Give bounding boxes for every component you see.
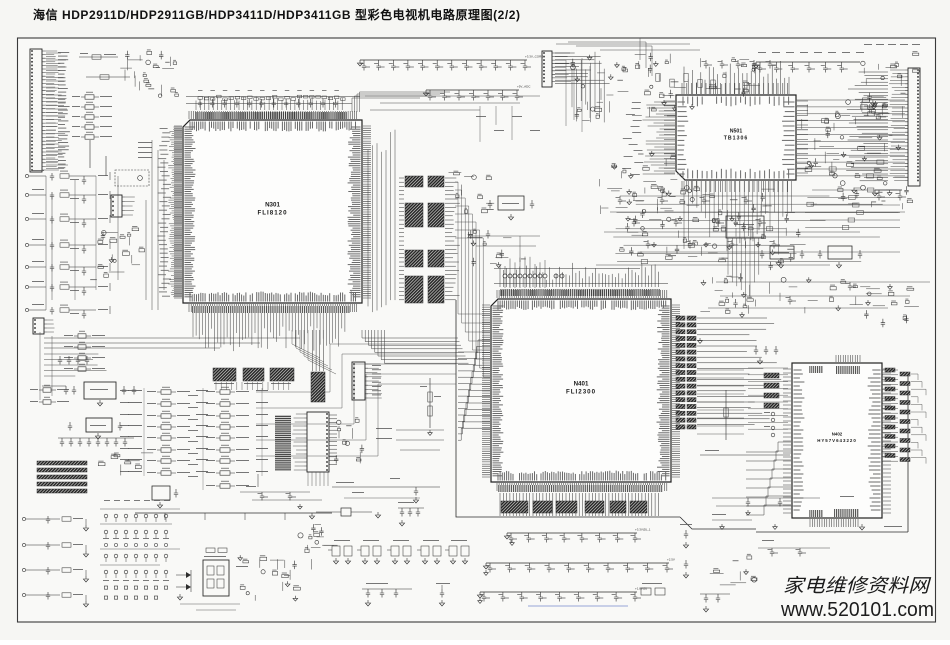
- resistor block column right of N401: [676, 316, 696, 429]
- decoupling caps row C560s top-right: [753, 62, 860, 73]
- delay line N502 box: [726, 216, 764, 238]
- bundle right edge of N301 top going right: [352, 98, 420, 112]
- cap row 2 drops: [476, 106, 540, 142]
- net labels right of XP101: [58, 52, 70, 168]
- AV input filter rows CA301..CA307 (Y/C inputs): [25, 171, 110, 319]
- supply rails above N301: [186, 97, 360, 104]
- cluster below N501 extra caps: [616, 196, 781, 249]
- connector XP501B (right edge): [889, 68, 920, 186]
- AV rows extra ink: [32, 170, 96, 314]
- wires below N401 into loop: [500, 493, 658, 516]
- N402 data bus horizontals: [697, 370, 744, 434]
- labels under RP301-RP303: [214, 383, 291, 384]
- +2.5V decoupling row: [483, 558, 675, 573]
- wires from right connector to N501 area: [846, 72, 888, 181]
- parts between opto and L-C pairs: [240, 486, 322, 509]
- diodes V103/V104 left of opto: [176, 570, 191, 600]
- pin header row (test points) above N401: [503, 274, 564, 278]
- discrete parts left of N501: [599, 151, 677, 218]
- svg-text:TB1306: TB1306: [724, 136, 748, 142]
- bus lines into N402 left pins: [748, 368, 788, 429]
- connector XP102 (small, below XP101): [33, 318, 55, 334]
- svg-text:N301: N301: [265, 202, 280, 209]
- mid-right discrete rows: [613, 196, 898, 270]
- L-C supply pair +3.3V_PADC: [417, 540, 441, 564]
- stub wires joining RP packs: [399, 178, 404, 300]
- keypad ADC resistor rows R9xx: [72, 92, 112, 139]
- LED indicator row with resistor R901: [79, 53, 118, 59]
- long rail wires from left connector: [44, 338, 300, 348]
- Flash_Power caps group: [398, 502, 424, 526]
- corner parts near right connector top: [862, 93, 906, 116]
- XP501 fan drop verticals: [566, 58, 590, 132]
- connector XP401 (panel output): [352, 362, 382, 400]
- svg-text:N401: N401: [574, 381, 589, 388]
- caps row below N102: [58, 438, 134, 447]
- resistor blocks left of N402: [764, 373, 779, 408]
- IC N301 FLI8120 (video processor): [174, 111, 371, 312]
- +3.3V(D)_1 decoupling row: [504, 528, 650, 543]
- cluster right of opto boost: [298, 524, 338, 569]
- caps near RN101: [98, 453, 153, 476]
- RP to ladder drops: [216, 382, 289, 390]
- bias resistor network R331 area: [90, 226, 144, 280]
- L-C supply pair +1.8V_PLL: [445, 540, 469, 564]
- voltage regulator N801 with caps: [760, 246, 804, 268]
- test point grid rows 3-4: [104, 554, 168, 578]
- flash D301 right pins: [329, 415, 337, 464]
- opto area labels: [180, 556, 248, 610]
- horizontal service bus: [135, 513, 332, 520]
- svg-text:家电维修资料网: 家电维修资料网: [783, 575, 932, 597]
- +3.3V_CORE decoupling row C501-C512: [357, 55, 543, 71]
- vertical drops from N501 bottom pins: [684, 181, 792, 255]
- resistor packs RP317/RP318: [405, 276, 444, 303]
- below N402 extra: [712, 514, 830, 557]
- ladder feed verticals: [144, 388, 262, 490]
- bottom-right caps pair C8xx: [700, 594, 730, 612]
- labels right of XP401: [372, 365, 381, 395]
- resistors above opto: [206, 548, 227, 552]
- svg-text:www.520101.com: www.520101.com: [780, 599, 934, 621]
- connector XP101 (main board input, left edge): [30, 49, 59, 172]
- SDRAM clock trace with label: [700, 450, 790, 455]
- left mid zigzag wires: [44, 354, 107, 376]
- top-centre vertical wires cluster: [572, 52, 604, 123]
- resistor stacks above N301: [198, 90, 345, 101]
- SOFTWLED trace: [332, 482, 440, 503]
- labels far left of N301 pins: [157, 128, 171, 297]
- svg-text:FLI8120: FLI8120: [257, 210, 287, 217]
- transistor parts right of opto: [238, 555, 300, 601]
- inductor L401 and cap C401: [449, 171, 495, 214]
- discrete row below regulators: [700, 273, 817, 313]
- cluster right of N501 (filters, H/V out): [802, 100, 908, 186]
- IC N501 TB1306 (jungle IC): [664, 83, 808, 192]
- vertical centre bundle from delay area: [728, 238, 759, 306]
- top row boost right of XP501: [556, 44, 776, 69]
- horizontal rails below N501: [596, 212, 905, 265]
- resistor column top-centre: [656, 73, 715, 109]
- regulator N803 above N401: [488, 196, 534, 220]
- svg-text:+2.5V: +2.5V: [667, 558, 675, 562]
- bus wires leaving N301 bottom: [193, 313, 345, 351]
- N402 control pin bundle to left: [746, 442, 791, 452]
- svg-text:N402: N402: [832, 432, 843, 437]
- crystal area extra wires: [470, 236, 540, 262]
- VOL_OUT caps group C368-C370: [362, 583, 412, 606]
- centre vertical bundle into header row: [505, 257, 545, 274]
- audio input rows bottom-left: [22, 516, 88, 607]
- blue revision underline: [528, 605, 628, 607]
- wires near VGA labels: [376, 428, 444, 450]
- PWM_OUT line with resistors: [86, 75, 130, 79]
- vertical resistor R413 centre: [420, 378, 441, 435]
- ladder area left labels: [120, 390, 129, 472]
- left rows 330-400 boost: [40, 332, 89, 400]
- L-C supply pair +1.8V_DADC: [357, 540, 381, 564]
- opto coupler N103: [203, 560, 229, 596]
- resistor pack RP301: [213, 368, 236, 381]
- resistor pack RP302: [243, 368, 264, 381]
- bundle from N301 bottom to RC ladder: [362, 330, 458, 338]
- transistor bias cluster V501-V504: [571, 53, 686, 121]
- connector XP501 top-centre: [542, 51, 571, 87]
- grid area more circles: [103, 538, 169, 581]
- pin label band below N301: [192, 306, 350, 313]
- pin strip N402 top: [809, 355, 860, 374]
- L318 Flash_Power row: [206, 474, 258, 488]
- svg-text:N501: N501: [730, 129, 743, 135]
- horizontal stubs left of N301: [168, 127, 182, 297]
- IC N402 HY57V643220 (SDRAM): [783, 363, 891, 518]
- svg-text:海信 HDP2911D/HDP2911GB/HDP3411D: 海信 HDP2911D/HDP2911GB/HDP3411D/HDP3411GB…: [33, 7, 520, 22]
- pin label band above N401: [500, 289, 660, 296]
- caps above N402: [754, 346, 778, 364]
- single caps column far right-bottom: [680, 524, 692, 578]
- wires right of N402 to frame: [911, 374, 918, 380]
- decoupling parts row above N301: [198, 99, 338, 108]
- resistor packs RP311/RP312: [405, 176, 444, 187]
- transistor cluster V901/V902 top-left: [120, 49, 178, 97]
- stepped bundle left of N401 from ladder: [256, 344, 456, 392]
- pad squares row 5: [104, 586, 167, 599]
- N401 left pin bundle going left: [458, 340, 490, 352]
- flash memory D301: [292, 412, 329, 472]
- resistor pack RP304 vertical: [311, 372, 325, 402]
- +5V_ADC decoupling row C520-C526: [423, 85, 531, 101]
- termination blocks right of N402 (outer col): [900, 372, 910, 462]
- resistor pack RP303: [270, 368, 294, 381]
- top wires into N501: [560, 38, 640, 60]
- test point grid rows 1-2: [104, 514, 168, 538]
- wire fan labels column right of XP101: [46, 53, 68, 169]
- signal bundle N301 to N401 (stepped): [455, 182, 490, 314]
- supply filter ladder col 2 (L311-L319): [206, 387, 249, 475]
- labels near SOFTW trace: [344, 478, 420, 498]
- svg-text:+5V_ADC: +5V_ADC: [517, 85, 531, 89]
- long rails centre-left: [365, 96, 540, 110]
- jumper circles left of N402: [764, 412, 775, 437]
- resistor packs RP401-RP406 below N401: [501, 501, 647, 513]
- resistor ladder R921 vertical: [90, 140, 106, 176]
- rows right of N501 lower: [805, 188, 900, 230]
- resistor packs RP313/RP314: [405, 203, 444, 227]
- svg-text:HY57V643220: HY57V643220: [817, 438, 857, 443]
- svg-text:+3.3V_CORE: +3.3V_CORE: [525, 55, 543, 59]
- wires above N501: [684, 61, 789, 94]
- resistor packs RP315/RP316: [405, 250, 444, 267]
- voltage regulator N102 with caps: [68, 418, 122, 439]
- label stack left of flash D301: [275, 415, 291, 471]
- voltage regulator N802 with caps: [818, 246, 862, 268]
- rail verticals left area: [146, 140, 164, 310]
- diagonal bundle into XP401: [292, 330, 320, 358]
- vertical rails AV row area: [46, 176, 118, 310]
- termination blocks right of N402 (inner col): [885, 368, 895, 458]
- wires below N402 area: [712, 498, 820, 515]
- connector XP103 5-pin: [111, 195, 135, 217]
- svg-text:FLI2300: FLI2300: [566, 389, 596, 396]
- wires RP packs to N401 bundle: [445, 178, 460, 300]
- wires N402 right loops: [882, 370, 898, 461]
- LVDS cap C371: [436, 583, 450, 606]
- ladder row labels boost col1: [128, 390, 208, 472]
- top right caps labels: [758, 44, 920, 53]
- series resistor R421: [724, 390, 728, 440]
- bottom-centre gnd arrows under rows: [478, 540, 515, 603]
- parts row top-right above N501: [701, 57, 760, 96]
- sync separator parts right-mid: [829, 279, 919, 327]
- IC N401 FLI2300 (scan converter): [482, 290, 680, 491]
- voltage regulator N101 with caps: [42, 382, 136, 406]
- transistor row V551/V552: [807, 185, 912, 209]
- supply rails above N401: [494, 269, 668, 284]
- wires dropping into N401 top: [500, 263, 658, 287]
- inductor L801/L802 right of bottom row: [641, 583, 665, 595]
- PLL 1.8V parts right: [710, 554, 757, 585]
- rails mid-right lower: [708, 282, 930, 317]
- small caps pair C570: [872, 190, 906, 201]
- extra left rows mid: [30, 385, 69, 404]
- PWM box below ladder: [152, 486, 178, 508]
- cluster below N501 (IF/video discretes): [620, 186, 806, 266]
- ladder row labels boost col2: [188, 390, 268, 477]
- loop area labels right-bottom: [840, 496, 902, 527]
- wires below test header to N401: [505, 278, 545, 288]
- wire fan from XP501: [555, 53, 610, 84]
- vertical bus right of N301: [368, 130, 395, 312]
- wires above RP304: [313, 330, 324, 371]
- pin strip N402 bottom: [809, 509, 865, 530]
- test grid area wires: [100, 500, 180, 565]
- standby parts rows left-mid: [64, 331, 105, 371]
- supply rail labels +3.3V/+1.8V stack: [138, 142, 152, 158]
- pullup parts right of flash: [334, 417, 364, 463]
- pin label band above N301: [195, 112, 347, 119]
- L-C supply pair +3.3V_SPLL: [328, 540, 352, 564]
- left-of-N501 horizontal pin wires: [622, 102, 675, 175]
- resistor network rows RN101 (hatched): [37, 461, 87, 493]
- signal rows N501 to right connector: [796, 98, 905, 178]
- top-right corner parts: [861, 51, 919, 86]
- wires N401 right blocks to N402: [697, 318, 781, 424]
- pin label band below N401: [498, 485, 663, 492]
- wire loop around N401 (left/bottom net boundary): [456, 300, 908, 532]
- gnd symbols below N402: [698, 338, 778, 529]
- L-C supply pair +3.3V_ADC: [387, 540, 411, 564]
- crystal oscillator G301 box: [115, 170, 149, 186]
- pin wires rising from N301 top to +3V3 rails: [196, 96, 342, 110]
- small box LA-1 with gnd: [316, 508, 381, 518]
- svg-text:+3.3V(D)_1: +3.3V(D)_1: [635, 528, 651, 532]
- +1.8V(D) decoupling row: [477, 587, 647, 602]
- crystal G401 parts: [467, 229, 525, 268]
- wires flash to ladder: [308, 472, 328, 486]
- supply filter ladder col 1 (L301-L308): [147, 387, 190, 475]
